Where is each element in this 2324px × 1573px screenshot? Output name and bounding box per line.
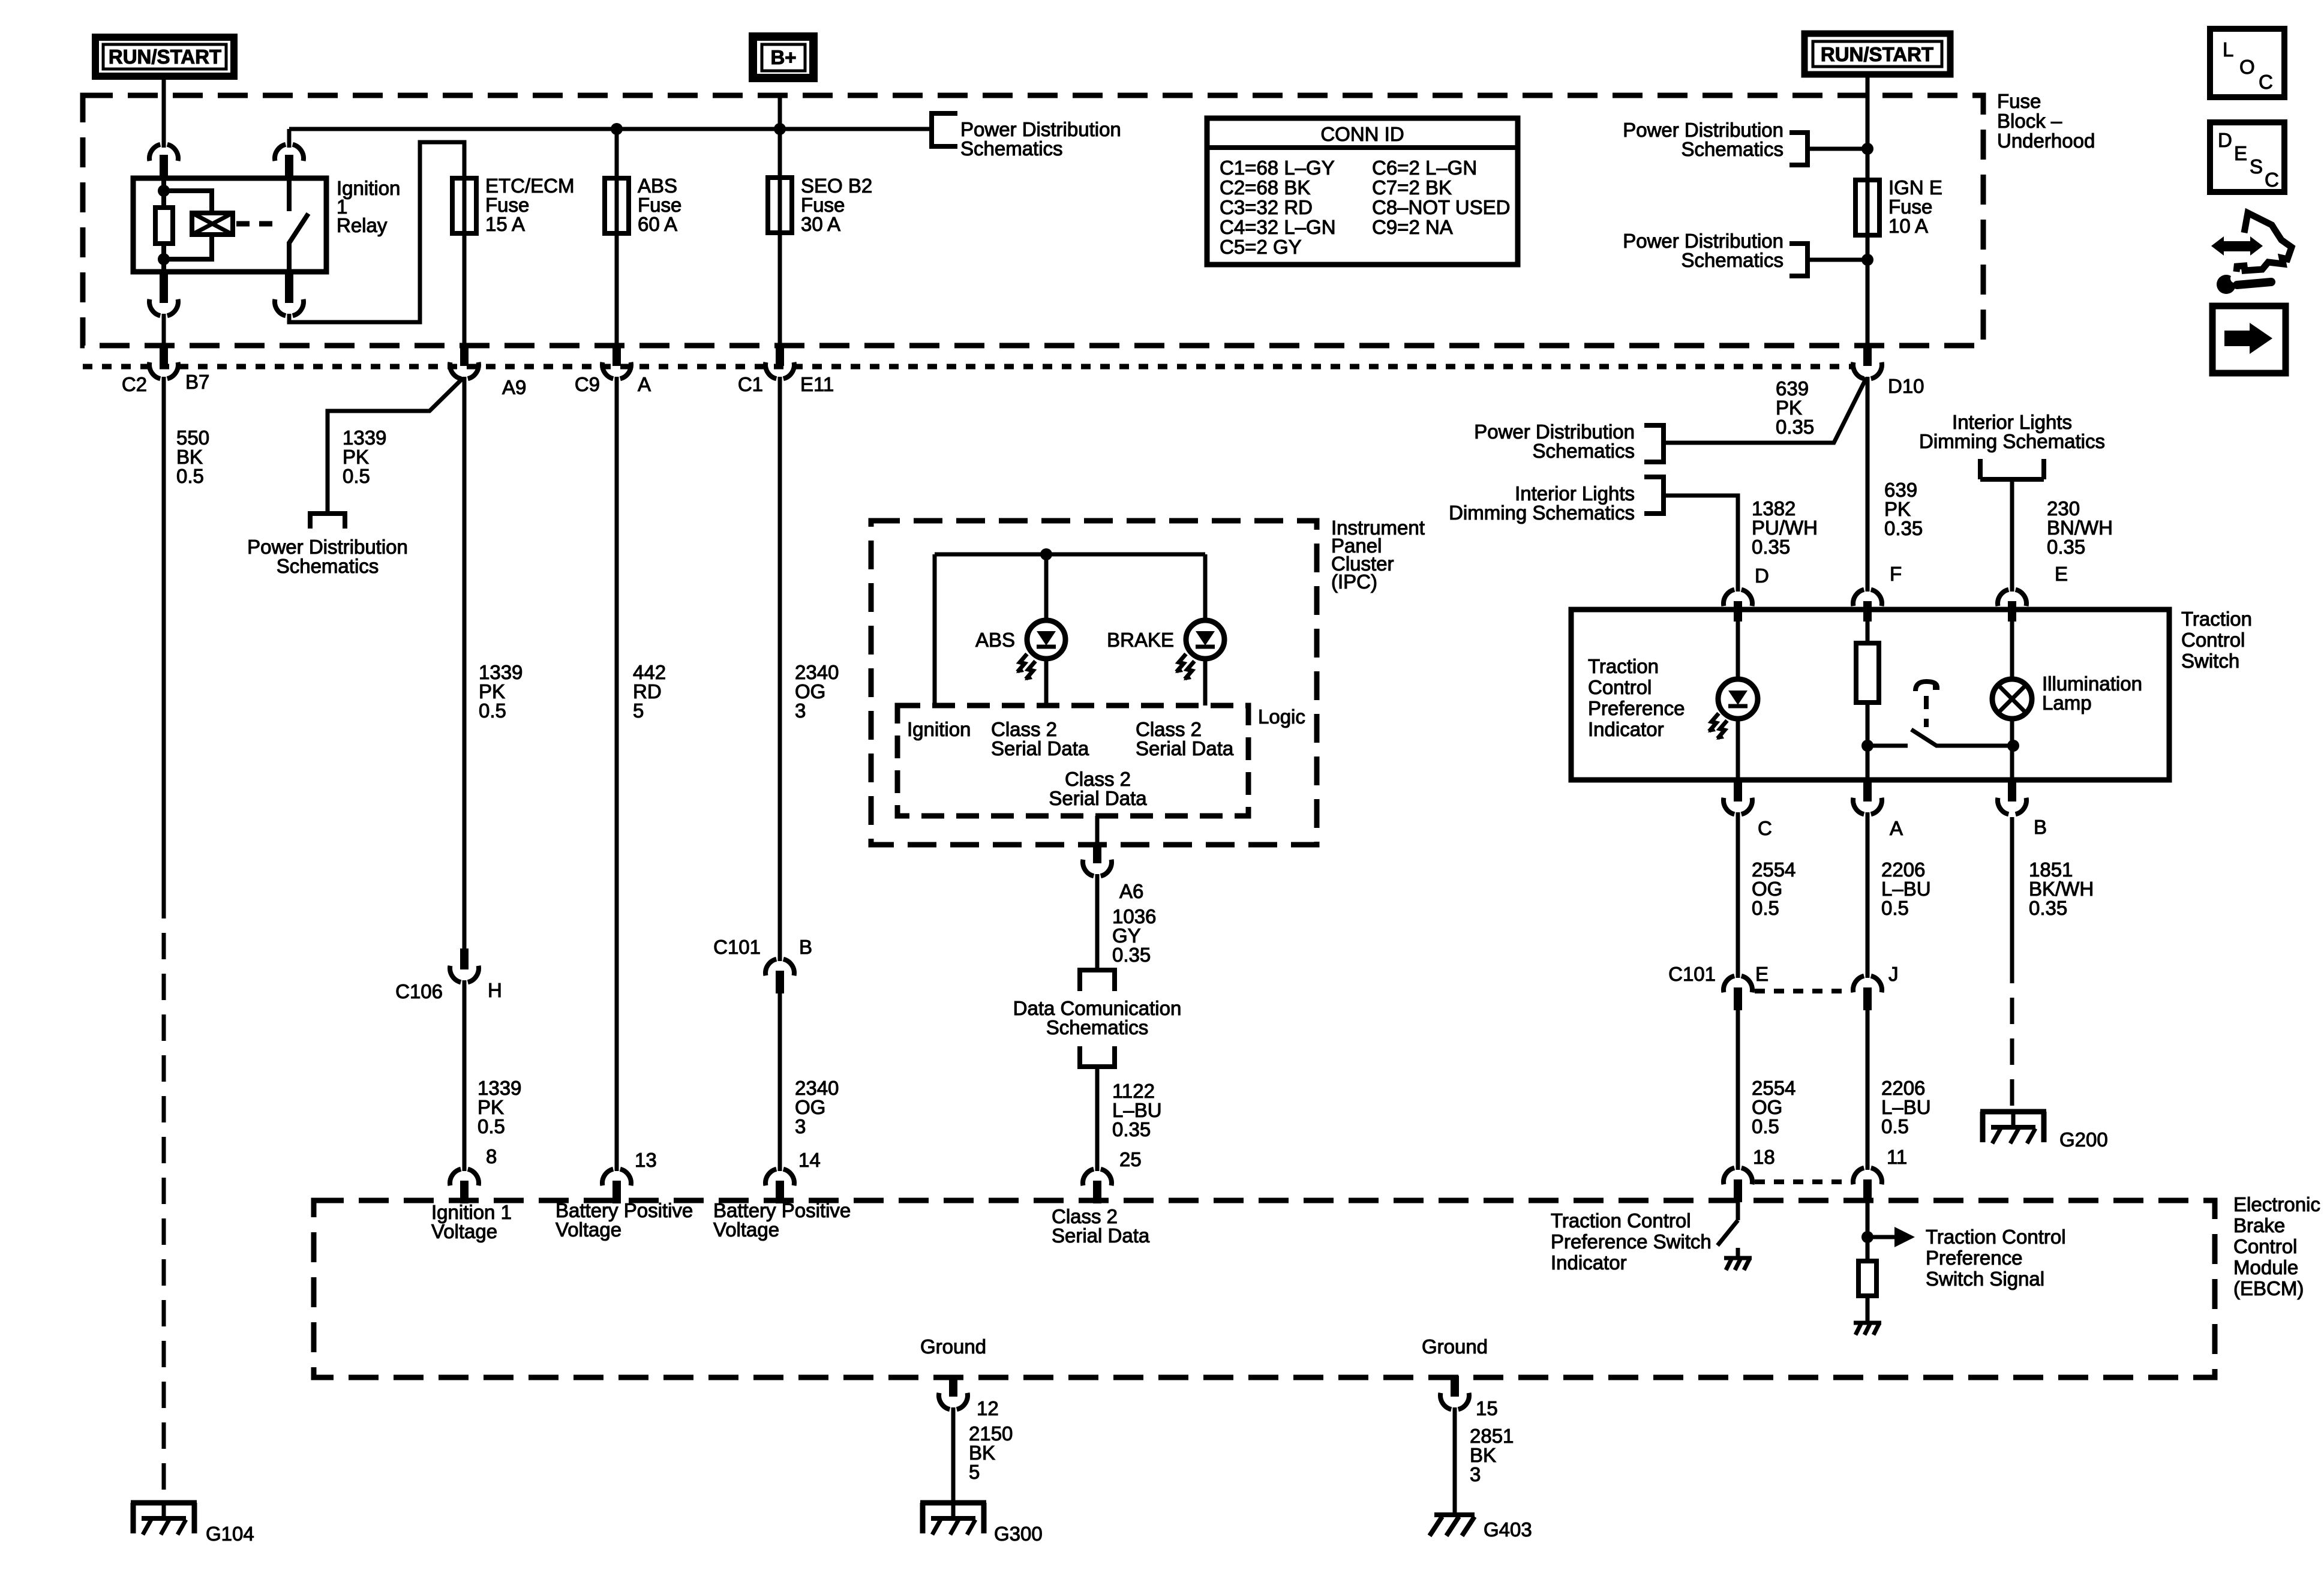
- off-page stub bracket data communication (bottom): [1077, 1046, 1117, 1067]
- wire RUN/START left to relay pin 1: [162, 77, 166, 148]
- junction node IPC bus: [1040, 548, 1052, 560]
- svg-text:C9=2 NA: C9=2 NA: [1372, 216, 1453, 238]
- svg-text:C3=32 RD: C3=32 RD: [1220, 196, 1313, 218]
- wire label 2554 OG 0.5 (upper): [1752, 858, 1795, 919]
- EBCM connector dashed face (18 to 11): [1755, 1179, 1851, 1184]
- connector pin E switch: [1998, 590, 2026, 622]
- EBCM pin label Class 2 Serial Data: [1052, 1205, 1150, 1247]
- wire 230 BN/WH stub to pin E: [2010, 479, 2014, 592]
- ground G104: [131, 1503, 197, 1535]
- IPC label: [1331, 517, 1425, 593]
- wire label 1339 PK 0.5 (branch): [343, 427, 386, 487]
- svg-text:0.5: 0.5: [1881, 1115, 1909, 1137]
- svg-text:Relay: Relay: [337, 214, 388, 236]
- svg-text:Serial Data: Serial Data: [991, 737, 1089, 760]
- power source box RUN/START (right): [1804, 34, 1950, 74]
- connector C1 pin E11 (fuse block exit): [765, 345, 794, 379]
- ground G200: [1980, 1112, 2046, 1143]
- signal arrow traction control preference switch signal: [1867, 1227, 1915, 1247]
- wire label 1851 BK/WH 0.35: [2029, 858, 2094, 919]
- svg-text:Ignition: Ignition: [907, 718, 971, 740]
- wire label 1339 PK 0.5 (upper): [479, 661, 523, 722]
- connector arc relay pin 1 top: [149, 145, 178, 161]
- svg-text:Preference Switch: Preference Switch: [1551, 1230, 1712, 1253]
- wire 550 BK dashed part to G104: [162, 892, 166, 1503]
- stub label Data Comunication Schematics: [1013, 997, 1182, 1038]
- svg-text:Traction: Traction: [1588, 655, 1659, 677]
- svg-text:E: E: [1755, 963, 1768, 985]
- wire D10 diagonal branch to power distribution stub: [1665, 378, 1866, 443]
- connector C9 pin A (fuse block exit): [602, 345, 631, 379]
- svg-text:C9: C9: [575, 373, 600, 395]
- EBCM pin label Battery Positive Voltage (13): [556, 1199, 693, 1241]
- svg-text:0.5: 0.5: [176, 465, 204, 487]
- svg-text:Preference: Preference: [1926, 1247, 2022, 1269]
- relay internal wire through resistor column: [161, 178, 166, 272]
- svg-text:Preference: Preference: [1588, 697, 1685, 719]
- svg-text:Schematics: Schematics: [277, 555, 379, 577]
- connector pin 11 EBCM: [1853, 1168, 1882, 1202]
- svg-text:CONN ID: CONN ID: [1320, 123, 1404, 145]
- wire label 2340 OG 3 (lower): [795, 1077, 839, 1137]
- svg-text:(IPC): (IPC): [1331, 571, 1377, 593]
- power source box B+: [753, 37, 813, 78]
- wire 1339 PK A9 to C106: [463, 377, 467, 948]
- power source box RUN/START (left): [95, 37, 234, 76]
- ground small inside EBCM: [1854, 1323, 1881, 1335]
- svg-text:0.5: 0.5: [1881, 897, 1909, 919]
- wire pin 11 into EBCM: [1866, 1201, 1870, 1261]
- relay pin 4 bottom stub: [285, 272, 293, 303]
- svg-text:A9: A9: [502, 376, 526, 398]
- junction node EBCM signal: [1861, 1231, 1873, 1243]
- wire 2554 OG C101 to pin 18: [1736, 1010, 1740, 1170]
- wire power distribution bus: [289, 127, 931, 131]
- wire 1851 BK/WH pin B solid part: [2010, 817, 2014, 957]
- svg-text:Indicator: Indicator: [1588, 718, 1664, 740]
- junction node IGN E upper: [1861, 143, 1873, 155]
- stub label Power Distribution Schematics (top): [960, 118, 1121, 160]
- wire IGN E fuse to D10: [1866, 235, 1870, 346]
- wire ETC fuse to A9: [463, 233, 467, 346]
- traction control switch label: [2181, 608, 2252, 672]
- fuse F4 label: [1888, 176, 1942, 237]
- relay coil branch wires: [164, 191, 212, 259]
- CONN ID table: [1207, 118, 1518, 265]
- svg-text:Fuse: Fuse: [1997, 90, 2041, 112]
- off-page stub bracket power distribution (top): [932, 113, 957, 146]
- svg-text:E: E: [2234, 142, 2247, 164]
- connector pin A6 IPC: [1083, 842, 1112, 876]
- svg-text:14: 14: [798, 1149, 821, 1171]
- svg-text:0.5: 0.5: [479, 700, 506, 722]
- svg-text:Traction Control: Traction Control: [1926, 1226, 2066, 1248]
- svg-text:Underhood: Underhood: [1997, 130, 2095, 152]
- wire illumination lamp to pin B: [2010, 719, 2014, 780]
- wire 2554 OG pin C to C101 E: [1736, 812, 1740, 978]
- svg-text:B7: B7: [185, 371, 209, 393]
- svg-text:Voltage: Voltage: [556, 1218, 621, 1241]
- svg-text:18: 18: [1753, 1146, 1775, 1168]
- svg-text:Serial Data: Serial Data: [1049, 787, 1147, 809]
- connector pin 18 EBCM: [1724, 1168, 1752, 1202]
- wire 550 BK solid part: [162, 377, 166, 892]
- svg-text:RUN/START: RUN/START: [1821, 43, 1933, 65]
- wire 2851 BK pin 15 to G403: [1453, 1407, 1457, 1513]
- svg-text:10 A: 10 A: [1888, 215, 1928, 237]
- svg-text:30 A: 30 A: [801, 213, 840, 235]
- svg-text:Block –: Block –: [1997, 110, 2062, 132]
- svg-text:5: 5: [969, 1461, 980, 1483]
- fuse block label: [1997, 90, 2095, 152]
- stub label Power Distribution Schematics (right upper): [1623, 119, 1783, 160]
- svg-text:O: O: [2239, 56, 2255, 78]
- relay K Ignition 1 Relay box: [133, 178, 326, 272]
- svg-text:0.35: 0.35: [1884, 517, 1923, 539]
- icon DESC box: [2210, 122, 2284, 192]
- wire class 2 serial data out of logic: [1095, 816, 1100, 842]
- svg-text:F: F: [1890, 563, 1902, 585]
- fuse block underhood dashed boundary: [83, 95, 1983, 346]
- svg-text:Brake: Brake: [2233, 1214, 2285, 1236]
- off-page stub bracket interior lights dimming (right): [1980, 459, 2044, 479]
- svg-text:Schematics: Schematics: [1046, 1016, 1149, 1038]
- svg-text:C2=68 BK: C2=68 BK: [1220, 176, 1310, 199]
- svg-text:C8–NOT USED: C8–NOT USED: [1372, 196, 1510, 218]
- wire pin D to indicator LED: [1736, 610, 1740, 680]
- wire B+ to SEO fuse: [778, 129, 782, 178]
- connector C101 pin E inline: [1724, 976, 1752, 1010]
- EBCM label: [2233, 1193, 2320, 1299]
- junction node bus at ABS fuse: [611, 123, 623, 135]
- fuse F3 SEO B2 30A: [768, 178, 792, 233]
- wire label 1122 L-BU 0.35: [1112, 1080, 1162, 1140]
- fuse F2 ABS 60A: [605, 178, 629, 233]
- connector arc relay pin 4 bottom: [275, 299, 304, 316]
- switch actuator dashed link: [1924, 696, 1929, 727]
- svg-text:C7=2 BK: C7=2 BK: [1372, 176, 1452, 199]
- svg-text:C1=68 L–GY: C1=68 L–GY: [1220, 157, 1335, 179]
- fuse F3 label: [801, 175, 872, 235]
- svg-text:0.35: 0.35: [1752, 536, 1790, 558]
- svg-text:D: D: [2218, 129, 2232, 151]
- connector C101 pin J inline: [1853, 976, 1882, 1010]
- svg-text:B: B: [2034, 816, 2047, 838]
- wire RUN/START right to IGN E fuse: [1866, 75, 1870, 180]
- svg-text:Schematics: Schematics: [1681, 138, 1783, 160]
- wire pin F to resistor: [1866, 610, 1870, 643]
- indicator LED ABS: [1016, 620, 1065, 680]
- svg-text:0.35: 0.35: [1776, 416, 1814, 438]
- wire label 550 BK 0.5: [176, 427, 209, 487]
- connector C101 pin B inline: [765, 959, 794, 993]
- fuse F2 label: [638, 175, 681, 235]
- off-page stub bracket interior lights dimming (left): [1644, 477, 1664, 514]
- wire 2340 OG C1 to C101 B: [778, 377, 782, 961]
- wire label 2340 OG 3 (upper): [795, 661, 839, 722]
- svg-text:B: B: [799, 936, 812, 958]
- svg-text:0.5: 0.5: [1752, 1115, 1779, 1137]
- svg-text:C6=2 L–GN: C6=2 L–GN: [1372, 157, 1477, 179]
- svg-text:60 A: 60 A: [638, 213, 677, 235]
- wire 2206 L-BU C101 to pin 11: [1866, 1010, 1870, 1170]
- svg-text:Serial Data: Serial Data: [1136, 737, 1234, 760]
- logic input label Class 2 Serial Data (ABS): [991, 718, 1089, 760]
- svg-text:Electronic: Electronic: [2233, 1193, 2320, 1215]
- switch contact from A: [1867, 744, 1908, 748]
- relay switch blade: [289, 214, 308, 243]
- connector arc relay pin 3 bottom: [149, 299, 178, 316]
- connector pin A switch bottom: [1853, 780, 1882, 814]
- connector pin 15 EBCM bottom: [1440, 1376, 1469, 1409]
- wire 1382 PU/WH stub to pin D: [1664, 496, 1738, 592]
- svg-text:Ground: Ground: [1422, 1335, 1488, 1358]
- wire 2150 BK pin 12 to G300: [951, 1407, 956, 1503]
- EBCM label Traction Control Preference Switch Indicator: [1551, 1209, 1712, 1274]
- svg-text:Control: Control: [1588, 676, 1652, 698]
- connector pin 25 EBCM: [1083, 1169, 1112, 1203]
- svg-text:C: C: [1758, 817, 1772, 839]
- svg-text:Traction: Traction: [2181, 608, 2252, 630]
- svg-text:H: H: [488, 979, 502, 1001]
- svg-text:0.35: 0.35: [1112, 1118, 1151, 1140]
- svg-text:0.35: 0.35: [1112, 944, 1151, 966]
- svg-text:Control: Control: [2233, 1235, 2297, 1257]
- svg-text:RUN/START: RUN/START: [109, 46, 221, 68]
- stub label Power Distribution Schematics (A9 branch): [247, 536, 408, 577]
- junction node switch A column: [1861, 740, 1873, 752]
- wire label 2554 OG 0.5 (lower): [1752, 1077, 1795, 1137]
- svg-text:C1: C1: [738, 373, 763, 395]
- connector pin 8 EBCM: [450, 1169, 479, 1203]
- wire ignition feed into logic: [933, 554, 937, 706]
- svg-text:C106: C106: [395, 980, 443, 1002]
- EBCM pin label Ignition 1 Voltage: [431, 1201, 512, 1242]
- EBCM electronic brake control module dashed box: [314, 1200, 2215, 1377]
- off-page stub bracket data communication (top): [1077, 970, 1117, 991]
- wire bus to relay pin 2: [287, 129, 292, 148]
- label Traction Control Preference Indicator: [1588, 655, 1685, 740]
- connector pin 14 EBCM: [765, 1169, 794, 1203]
- off-page stub bracket power distribution (A9 branch): [308, 514, 347, 529]
- EBCM label Traction Control Preference Switch Signal: [1926, 1226, 2066, 1290]
- svg-text:C: C: [2259, 71, 2273, 93]
- svg-text:Serial Data: Serial Data: [1052, 1224, 1150, 1247]
- svg-text:Schematics: Schematics: [1532, 440, 1635, 462]
- stub label Interior Lights Dimming Schematics (left): [1449, 482, 1635, 524]
- connector pin F switch: [1853, 590, 1882, 622]
- connector pin 12 EBCM bottom: [939, 1376, 968, 1409]
- svg-text:E11: E11: [800, 373, 834, 395]
- relay actuator dashed link: [236, 221, 282, 227]
- wire relay pin 3 down to C2 row: [162, 314, 166, 346]
- connector C106 pin H inline: [450, 948, 479, 982]
- svg-text:J: J: [1888, 963, 1899, 985]
- svg-text:Switch Signal: Switch Signal: [1926, 1268, 2044, 1290]
- svg-text:15: 15: [1476, 1397, 1498, 1419]
- connector pin D10 (fuse block exit): [1853, 345, 1882, 379]
- ground G403: [1430, 1515, 1475, 1536]
- wire ABS lamp column: [1044, 554, 1049, 706]
- wire label 639 PK 0.35 (branch): [1776, 377, 1814, 438]
- wire label 230 BN/WH 0.35: [2047, 497, 2113, 558]
- connector pin D switch: [1724, 590, 1752, 622]
- svg-text:Switch: Switch: [2181, 650, 2239, 672]
- ground G300: [920, 1503, 986, 1535]
- svg-text:L: L: [2223, 38, 2233, 61]
- svg-text:3: 3: [795, 700, 806, 722]
- wire 1036 GY A6 to stub: [1095, 874, 1100, 970]
- wire bus to ABS fuse: [615, 129, 619, 178]
- wire relay output jog to ETC/ECM fuse: [289, 142, 464, 322]
- connector arc relay pin 2 top: [275, 145, 304, 161]
- IPC internal feed bus: [935, 553, 1205, 557]
- wire label 442 RD 5: [633, 661, 666, 722]
- svg-text:C2: C2: [122, 373, 147, 395]
- svg-text:0.5: 0.5: [478, 1115, 505, 1137]
- svg-text:3: 3: [1470, 1463, 1481, 1485]
- wire BRAKE lamp column: [1203, 554, 1208, 706]
- svg-text:G403: G403: [1484, 1518, 1532, 1541]
- svg-text:Logic: Logic: [1258, 706, 1305, 728]
- junction node relay coil top: [158, 185, 170, 197]
- wire A9 diagonal branch to power distribution: [328, 378, 463, 511]
- wire ABS fuse to C9 row: [615, 233, 619, 346]
- wire 1851 BK/WH dashed part to G200: [2010, 957, 2014, 1112]
- svg-text:25: 25: [1119, 1148, 1142, 1170]
- svg-text:Schematics: Schematics: [960, 137, 1063, 160]
- wire 1122 L-BU stub to pin 25: [1095, 1067, 1100, 1171]
- svg-text:3: 3: [795, 1115, 806, 1137]
- wire label 639 PK 0.35 (to switch): [1884, 479, 1923, 539]
- wire resistor to EBCM ground: [1866, 1296, 1870, 1323]
- indicator LED traction control preference: [1708, 679, 1758, 740]
- wire label 1339 PK 0.5 (lower): [478, 1077, 521, 1137]
- icon service vehicle pictograph: [2211, 213, 2292, 294]
- IPC logic dashed box: [897, 706, 1248, 816]
- svg-text:G300: G300: [994, 1523, 1043, 1545]
- wire label 2851 BK 3: [1470, 1425, 1514, 1485]
- off-page stub bracket power distribution (D10 branch): [1644, 425, 1664, 462]
- svg-text:Control: Control: [2181, 629, 2245, 651]
- connector face dotted row under fuse block: [83, 364, 1852, 370]
- svg-text:C5=2 GY: C5=2 GY: [1220, 236, 1302, 258]
- svg-text:0.5: 0.5: [343, 465, 370, 487]
- wire B+ drop: [778, 98, 782, 129]
- icon LOC box: [2210, 29, 2284, 97]
- svg-text:B+: B+: [770, 46, 796, 68]
- svg-text:D: D: [1755, 565, 1769, 587]
- connector C2 pin B7 (fuse block exit): [149, 345, 178, 379]
- wire 639 PK D10 to pin F: [1866, 377, 1870, 592]
- relay label Ignition 1 Relay: [337, 177, 400, 236]
- svg-text:C: C: [2265, 169, 2279, 191]
- junction node switch B column: [2007, 740, 2019, 752]
- wire 442 RD C9 to pin 13: [615, 377, 619, 1171]
- indicator LED BRAKE: [1175, 620, 1224, 680]
- wire label 2150 BK 5: [969, 1422, 1013, 1483]
- switch blade: [1911, 730, 2013, 746]
- svg-text:Dimming Schematics: Dimming Schematics: [1449, 502, 1635, 524]
- relay pin 3 bottom stub: [160, 272, 168, 303]
- relay coil box with X: [192, 213, 233, 235]
- wire SEO fuse to C1 row: [778, 233, 782, 346]
- svg-text:E: E: [2055, 563, 2068, 585]
- svg-text:15 A: 15 A: [485, 213, 525, 235]
- icon boxed arrow: [2212, 306, 2286, 373]
- wire label 1036 GY 0.35: [1112, 905, 1156, 966]
- stub label Power Distribution Schematics (right lower): [1623, 230, 1783, 271]
- svg-text:A: A: [1890, 817, 1903, 839]
- svg-text:ABS: ABS: [975, 629, 1015, 651]
- resistor inside EBCM: [1858, 1261, 1876, 1296]
- wire 2340 OG C101 to pin 14: [778, 993, 782, 1171]
- logic output label Class 2 Serial Data: [1049, 768, 1147, 809]
- stub label Power Distribution Schematics (D10 branch): [1474, 421, 1635, 462]
- wire label 2206 L-BU 0.5 (upper): [1881, 858, 1931, 919]
- wire label 2206 L-BU 0.5 (lower): [1881, 1077, 1931, 1137]
- svg-text:Lamp: Lamp: [2042, 692, 2092, 714]
- stub label Interior Lights Dimming Schematics (right): [1919, 411, 2105, 452]
- svg-text:C101: C101: [1668, 963, 1716, 985]
- stub wire to IGN E column (upper): [1807, 147, 1867, 151]
- connector pin C switch bottom: [1724, 780, 1752, 814]
- relay switch fixed contact wire: [287, 178, 292, 211]
- stub wire to IGN E column (lower): [1807, 258, 1867, 262]
- resistor inside switch: [1856, 643, 1879, 703]
- connector pin B switch bottom: [1998, 780, 2026, 814]
- wire 1339 PK C106 to pin 8: [463, 980, 467, 1171]
- svg-text:Indicator: Indicator: [1551, 1251, 1627, 1274]
- svg-text:BRAKE: BRAKE: [1107, 629, 1174, 651]
- illumination lamp: [1992, 679, 2032, 719]
- C101 connector dashed face (E to J): [1755, 989, 1851, 993]
- svg-text:(EBCM): (EBCM): [2233, 1277, 2304, 1299]
- off-page stub bracket power distribution (right lower): [1789, 244, 1807, 276]
- wire label 1382 PU/WH 0.35: [1752, 497, 1818, 558]
- svg-text:5: 5: [633, 700, 644, 722]
- traction control switch box: [1571, 610, 2169, 780]
- wire indicator LED to pin C: [1736, 719, 1740, 780]
- svg-text:Traction Control: Traction Control: [1551, 1209, 1691, 1232]
- svg-text:G200: G200: [2059, 1128, 2108, 1151]
- svg-text:Module: Module: [2233, 1256, 2298, 1278]
- fuse F1 label: [485, 175, 575, 235]
- svg-text:0.35: 0.35: [2029, 897, 2067, 919]
- connector pin 13 EBCM: [602, 1169, 631, 1203]
- connector pin A9 (fuse block exit): [450, 345, 479, 379]
- svg-text:S: S: [2250, 155, 2263, 178]
- wire 2206 L-BU pin A to C101 J: [1866, 812, 1870, 978]
- svg-text:12: 12: [977, 1397, 999, 1419]
- svg-text:Voltage: Voltage: [431, 1220, 497, 1242]
- logic input label Class 2 Serial Data (BRAKE): [1136, 718, 1234, 760]
- svg-text:Voltage: Voltage: [713, 1218, 779, 1241]
- svg-text:D10: D10: [1888, 375, 1924, 397]
- svg-text:A: A: [638, 373, 651, 395]
- svg-text:13: 13: [635, 1149, 657, 1171]
- svg-text:0.5: 0.5: [1752, 897, 1779, 919]
- label Illumination Lamp: [2042, 673, 2142, 714]
- svg-text:C101: C101: [713, 936, 761, 958]
- svg-text:Dimming Schematics: Dimming Schematics: [1919, 430, 2105, 452]
- ground small under EBCM switch: [1724, 1248, 1752, 1270]
- fuse F1 ETC/ECM 15A: [452, 178, 476, 233]
- off-page stub bracket power distribution (right upper): [1789, 133, 1807, 165]
- svg-text:11: 11: [1887, 1146, 1907, 1168]
- svg-text:0.35: 0.35: [2047, 536, 2085, 558]
- EBCM pin label Battery Positive Voltage (14): [713, 1199, 851, 1241]
